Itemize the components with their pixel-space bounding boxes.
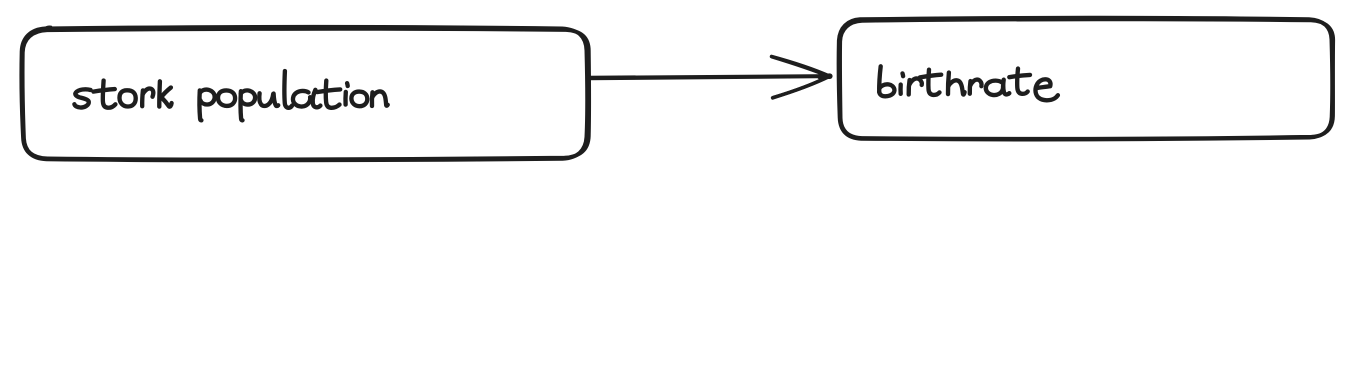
glyph p [199, 90, 201, 120]
glyph o [218, 90, 235, 106]
glyph r [140, 90, 145, 106]
glyph r [907, 80, 912, 95]
glyph i [898, 85, 903, 94]
glyph b [879, 66, 881, 92]
glyph t [103, 81, 116, 108]
glyph t [1017, 69, 1028, 94]
glyph u [259, 93, 273, 106]
arrowhead lower barb [773, 76, 830, 98]
arrowhead upper barb [772, 56, 830, 76]
glyph r [968, 81, 973, 94]
glyph a [293, 91, 310, 107]
glyph k [157, 81, 162, 106]
glyph a [986, 81, 1003, 95]
glyph o [119, 90, 135, 106]
glyph n [370, 92, 375, 106]
text stork population [74, 71, 387, 120]
arrow shaft [589, 76, 829, 78]
glyph o [351, 92, 367, 107]
glyph t [928, 70, 939, 95]
box stork population [21, 27, 589, 161]
glyph t [326, 81, 340, 108]
text birthrate [879, 66, 1058, 100]
box birthrate [839, 18, 1334, 140]
glyph s [74, 89, 90, 107]
glyph p [241, 91, 243, 120]
arrowhead tip thickening [820, 73, 830, 79]
arrow stork population -> birthrate [589, 56, 830, 98]
glyph e [1035, 79, 1057, 100]
glyph l [284, 71, 292, 108]
glyph i [343, 92, 348, 105]
glyph h [946, 73, 951, 95]
